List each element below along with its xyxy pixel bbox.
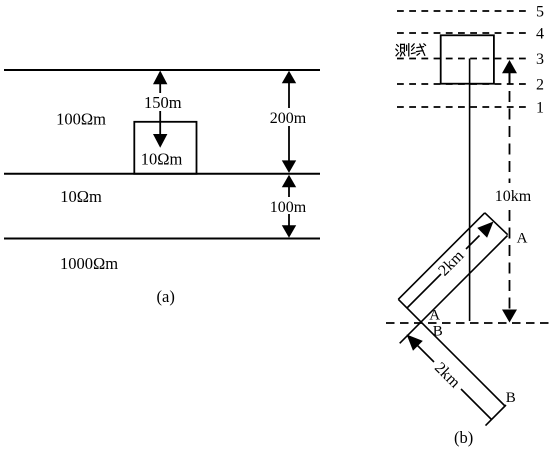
svg-text:10km: 10km [495,188,532,205]
svg-text:1000Ωm: 1000Ωm [60,254,118,273]
dashed level line 5 [397,10,531,12]
10km arrowhead down [502,310,517,323]
svg-text:100Ωm: 100Ωm [56,110,106,129]
200m arrowhead down [282,160,296,173]
cexian glyph 1 (ce) [396,44,409,56]
upper dike top end cap [485,213,508,235]
survey-line box [441,35,494,83]
upper dike upper-left side [398,213,485,299]
10km arrowhead up [502,60,517,73]
svg-text:B: B [433,324,443,340]
dashed level line 3 [397,58,531,60]
10km dashed line upper [509,91,511,183]
200m arrow shaft upper [288,81,290,108]
svg-text:10Ωm: 10Ωm [141,149,183,168]
svg-text:100m: 100m [270,199,307,216]
upper dike bottom cap / lower dike upper side [398,299,505,406]
svg-text:B: B [506,390,516,406]
svg-text:1: 1 [536,100,544,117]
upper dike lower-right side [400,236,508,344]
150m depth arrow shaft lower [159,111,161,135]
10km dashed line lower [509,210,511,309]
100m arrowhead down [282,225,296,238]
svg-text:10Ωm: 10Ωm [60,187,102,206]
svg-text:200m: 200m [270,110,307,127]
layer boundary line 3 [4,238,320,240]
200m arrow shaft lower [288,126,290,163]
150m arrowhead up [153,71,167,85]
borehole vertical line [469,59,471,322]
100m arrow shaft lower [288,214,290,228]
lower 2km arrowhead [407,335,423,351]
layer boundary line 2 [4,173,320,175]
150m depth arrow shaft upper [159,83,161,93]
dashed level line 1 [397,106,531,108]
100m arrow shaft upper [288,186,290,197]
svg-text:A: A [517,230,528,246]
svg-text:(a): (a) [157,287,175,306]
svg-text:A: A [429,308,440,324]
upper 2km arrowhead [477,222,493,238]
100m arrowhead up [282,175,296,188]
buried block (10 ohm-m body) [134,122,196,174]
lower 2km arrow shaft lower [461,389,492,420]
150m arrowhead down [153,134,167,148]
lower 2km arrow shaft upper [417,345,435,363]
svg-text:2: 2 [536,77,544,94]
ground dashed line (b) [386,322,552,324]
cexian glyph 2 (xian) [411,44,425,56]
svg-text:150m: 150m [144,93,182,112]
dashed level line 4 [397,32,531,34]
svg-text:5: 5 [536,4,544,21]
svg-text:(b): (b) [454,428,473,447]
svg-text:4: 4 [536,26,544,43]
upper 2km arrow shaft upper [466,236,480,250]
layer boundary line 1 (surface) [4,69,320,71]
svg-text:3: 3 [536,51,544,68]
lower dike bottom end cap [486,405,507,426]
upper 2km arrow shaft lower [407,274,441,308]
10km line solid stub [509,73,511,85]
dashed level line 2 [397,83,531,85]
200m arrowhead up [282,71,296,84]
